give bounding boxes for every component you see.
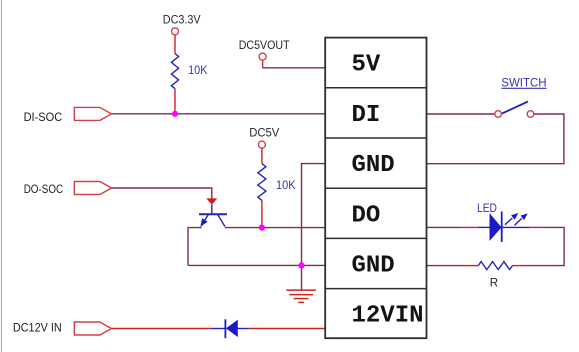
svg-text:10K: 10K [188,65,208,77]
svg-text:LED: LED [477,203,497,215]
svg-text:GND: GND [352,253,395,280]
svg-text:DO: DO [352,202,381,229]
svg-text:5V: 5V [352,52,381,79]
svg-text:DC5V: DC5V [249,128,279,140]
svg-text:DC12V IN: DC12V IN [13,323,62,335]
svg-text:DC5VOUT: DC5VOUT [239,40,290,52]
svg-text:DI-SOC: DI-SOC [24,112,63,124]
svg-text:10K: 10K [276,180,296,192]
svg-text:DO-SOC: DO-SOC [24,184,63,196]
svg-text:GND: GND [352,152,395,179]
svg-text:DC3.3V: DC3.3V [163,15,201,27]
svg-text:DI: DI [352,102,381,129]
svg-text:SWITCH: SWITCH [501,77,546,89]
svg-text:12VIN: 12VIN [352,303,424,330]
svg-text:R: R [490,278,498,290]
